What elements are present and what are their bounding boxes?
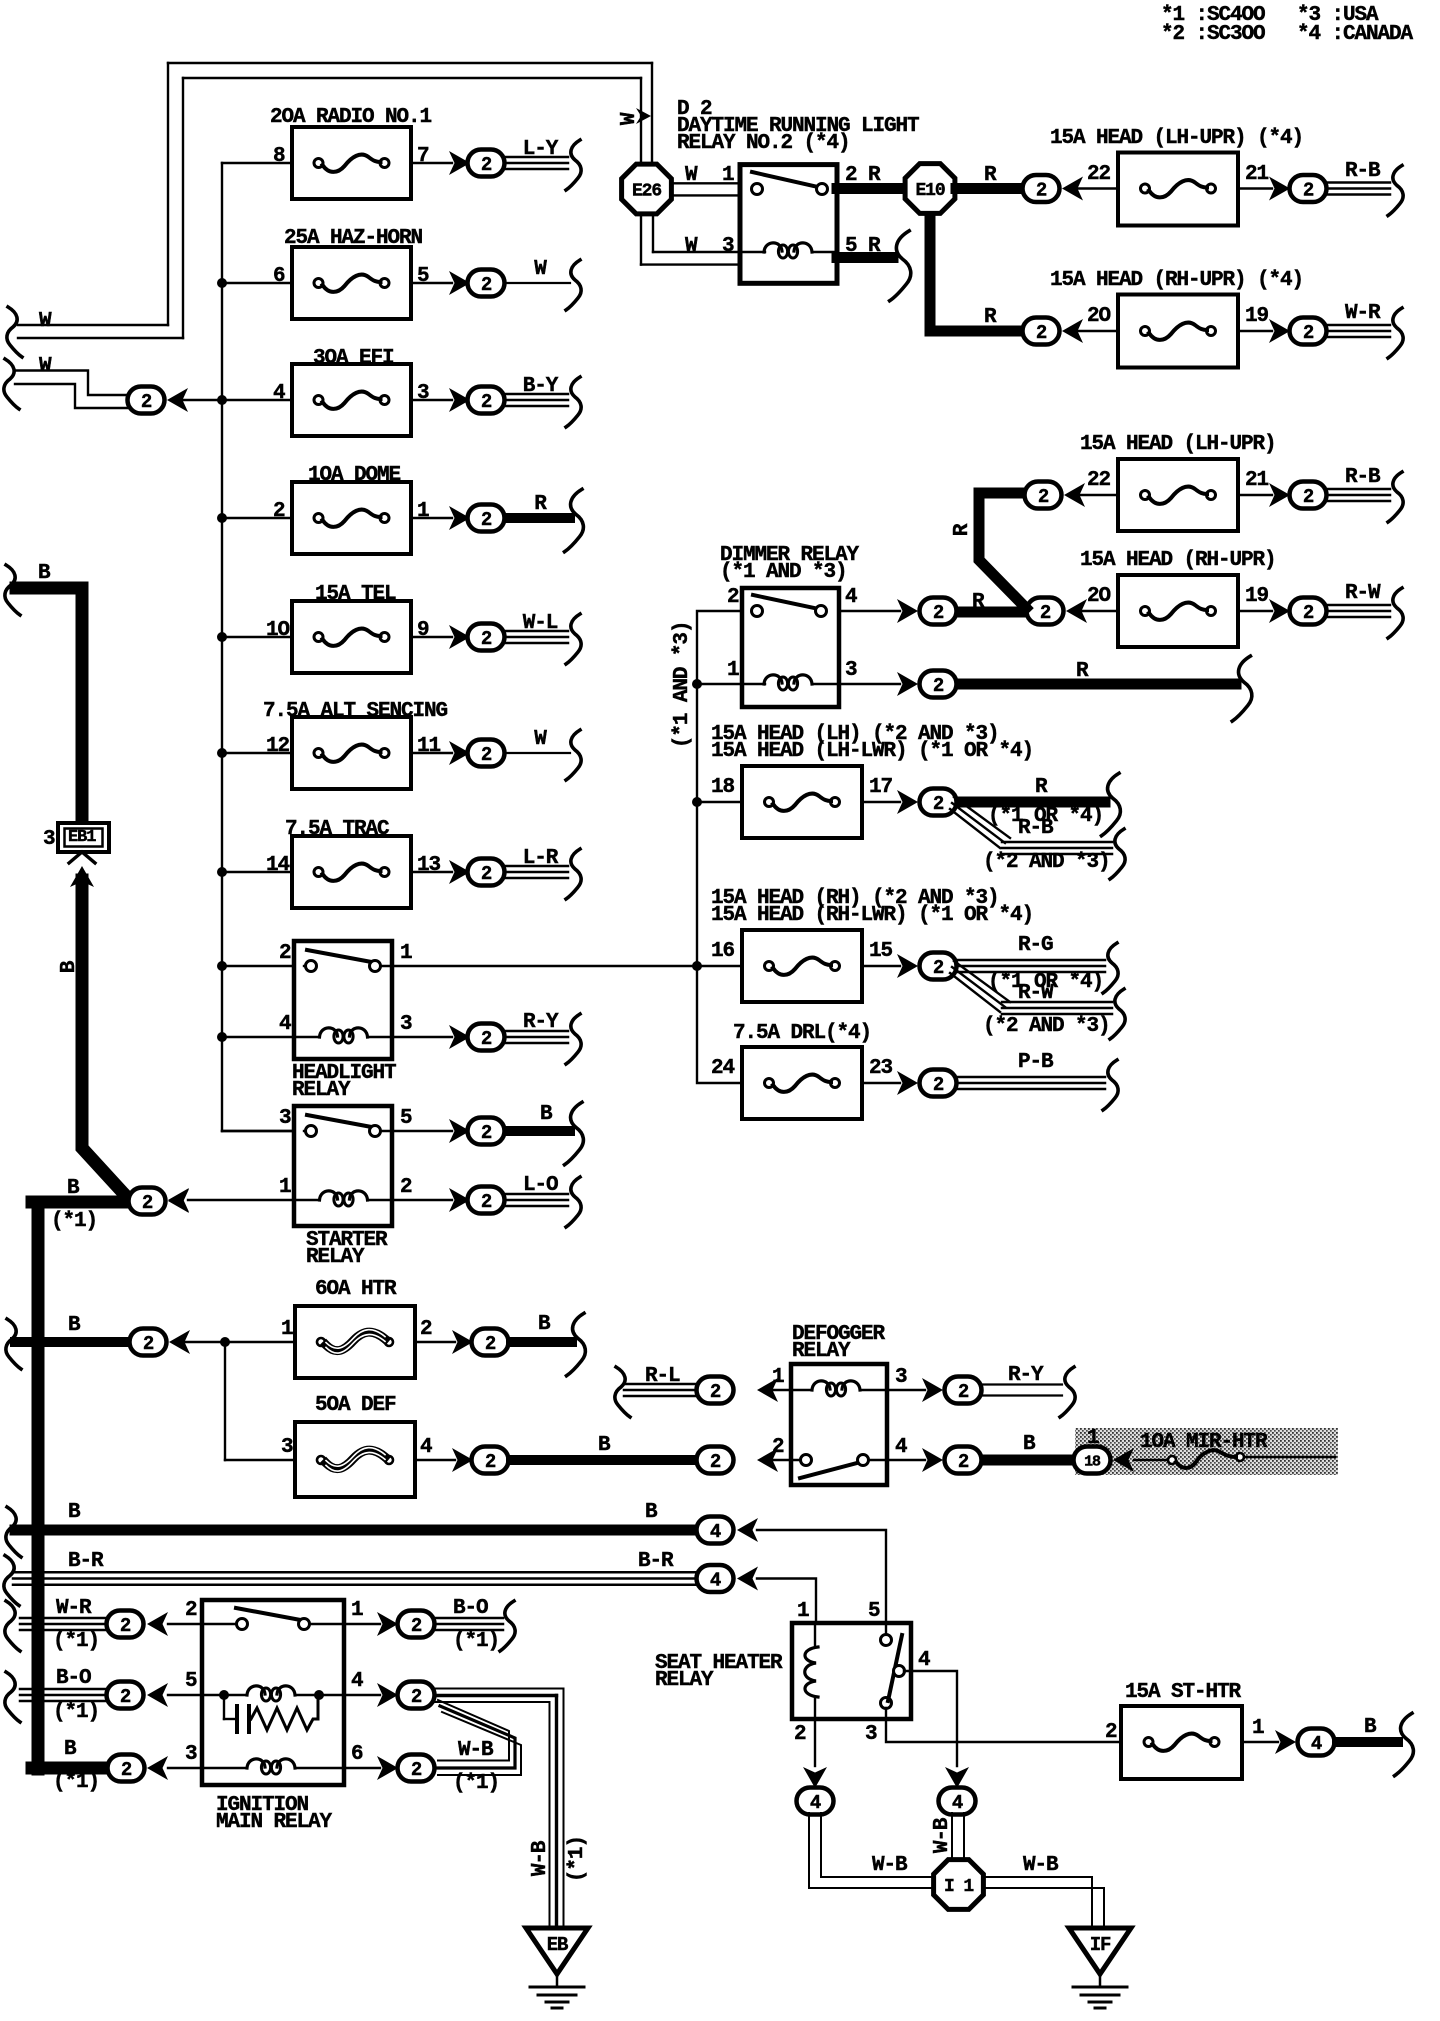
svg-text:B: B <box>540 1103 553 1126</box>
svg-text:14: 14 <box>266 854 290 877</box>
svg-text:W: W <box>39 310 52 333</box>
svg-text:2: 2 <box>933 675 944 697</box>
svg-text:1: 1 <box>722 164 734 187</box>
connector 2 <box>697 1447 734 1474</box>
connector 2 <box>129 1188 166 1215</box>
connector bracket <box>1103 943 1118 993</box>
connector 2 <box>1027 598 1064 625</box>
connector bracket <box>565 1102 584 1165</box>
connector 2 <box>468 859 505 886</box>
svg-text:2: 2 <box>185 1599 197 1622</box>
svg-text:B: B <box>58 960 81 973</box>
svg-text:*4 :CANADA: *4 :CANADA <box>1297 23 1414 46</box>
svg-text:4: 4 <box>810 1792 821 1814</box>
wire pin2 down <box>814 1719 816 1766</box>
connector bracket <box>1232 656 1252 721</box>
connector 2 <box>468 505 505 532</box>
svg-text:15A HEAD (LH-LWR) (*1 OR *4): 15A HEAD (LH-LWR) (*1 OR *4) <box>711 740 1033 763</box>
svg-text:16: 16 <box>711 940 735 963</box>
wire B (*1) <box>32 1762 107 1775</box>
svg-text:4: 4 <box>845 586 857 609</box>
svg-text:(*1 AND *3): (*1 AND *3) <box>720 561 847 584</box>
junction <box>217 632 227 642</box>
svg-text:R-W: R-W <box>1345 582 1381 605</box>
svg-text:2: 2 <box>794 1723 806 1746</box>
svg-text:2: 2 <box>141 391 152 413</box>
svg-text:5: 5 <box>185 1670 197 1693</box>
connector 2 <box>468 624 505 651</box>
wire R up to LH-UPR fuse <box>979 493 1026 608</box>
connector bracket <box>566 1014 581 1064</box>
wire W-B (*1) pin4 to pin6 <box>438 1700 509 1761</box>
wire to starter relay pin1 <box>188 1199 294 1201</box>
arrow <box>449 388 470 412</box>
wire W-B pin4 to I1 <box>951 1813 953 1860</box>
svg-text:B: B <box>68 1501 81 1524</box>
connector 2 <box>130 1329 167 1356</box>
svg-text:W-B: W-B <box>458 1739 494 1762</box>
svg-text:R: R <box>951 523 974 536</box>
svg-text:RELAY: RELAY <box>792 1340 851 1363</box>
wire B to junction 2 (*1) <box>69 852 95 863</box>
arrow <box>449 151 470 175</box>
svg-text:5: 5 <box>417 265 429 288</box>
svg-text:2: 2 <box>1105 1721 1117 1744</box>
connector bracket <box>1103 1060 1118 1110</box>
wire W from fuse box to E26 (double line) <box>168 62 652 64</box>
svg-text:(*1): (*1) <box>453 1772 499 1795</box>
svg-text:1: 1 <box>351 1599 363 1622</box>
connector bracket <box>500 1601 515 1651</box>
junction <box>217 961 227 971</box>
connector 4 <box>697 1565 734 1592</box>
connector 4 <box>1298 1729 1335 1756</box>
svg-text:2: 2 <box>933 1074 944 1096</box>
arrow <box>1113 1448 1134 1472</box>
connector 2 <box>1290 175 1327 202</box>
relay HEADLIGHT RELAY <box>294 941 392 1059</box>
svg-text:5: 5 <box>400 1107 412 1130</box>
svg-text:2: 2 <box>481 509 492 531</box>
connector 2 <box>920 1070 957 1097</box>
svg-text:2: 2 <box>143 1333 154 1355</box>
connector bracket <box>1395 1713 1414 1776</box>
connector 2 <box>468 1118 505 1145</box>
svg-text:1: 1 <box>727 659 739 682</box>
arrow <box>945 1767 969 1788</box>
svg-text:R-B: R-B <box>1018 817 1054 840</box>
wire W-B to ground EB pin4 <box>344 1694 380 1696</box>
svg-text:E10: E10 <box>915 181 944 201</box>
svg-text:21: 21 <box>1245 469 1269 492</box>
connector 2 <box>468 387 505 414</box>
svg-text:2: 2 <box>420 1318 432 1341</box>
wire pin4 <box>904 1671 957 1766</box>
arrow <box>1062 319 1083 343</box>
svg-text:3: 3 <box>279 1107 291 1130</box>
svg-text:W-B: W-B <box>1023 1854 1059 1877</box>
svg-text:6: 6 <box>351 1743 363 1766</box>
wire to seat heater relay pin5 <box>757 1530 886 1623</box>
svg-text:17: 17 <box>869 776 893 799</box>
svg-text:EB1: EB1 <box>68 828 96 847</box>
svg-text:2: 2 <box>400 1176 412 1199</box>
connector I1 <box>934 1860 984 1910</box>
wire W-B I1 to IF ground <box>984 1876 1092 1878</box>
svg-text:4: 4 <box>895 1436 907 1459</box>
wire W to junction 2 (double line) <box>15 371 127 396</box>
svg-text:2: 2 <box>1036 179 1047 201</box>
svg-text:2: 2 <box>958 1451 969 1473</box>
connector 2 <box>920 598 957 625</box>
svg-text:R-W: R-W <box>1018 982 1054 1005</box>
svg-text:B: B <box>1023 1433 1036 1456</box>
fuse 10A MIR-HTR (shaded) <box>1075 1428 1338 1475</box>
svg-text:7: 7 <box>417 145 429 168</box>
svg-text:RELAY: RELAY <box>306 1246 365 1269</box>
connector 2 <box>468 740 505 767</box>
svg-text:21: 21 <box>1245 163 1269 186</box>
svg-text:6OA HTR: 6OA HTR <box>315 1278 397 1301</box>
svg-text:12: 12 <box>266 735 290 758</box>
svg-text:MAIN RELAY: MAIN RELAY <box>216 1811 333 1834</box>
svg-text:R-G: R-G <box>1018 934 1053 957</box>
junction <box>692 797 702 807</box>
svg-text:(*1): (*1) <box>53 1630 99 1653</box>
svg-text:2: 2 <box>710 1381 721 1403</box>
svg-text:1: 1 <box>279 1176 291 1199</box>
connector bracket <box>566 377 581 427</box>
svg-text:B: B <box>1364 1716 1377 1739</box>
svg-text:3: 3 <box>400 1013 412 1036</box>
svg-text:2: 2 <box>1303 602 1314 624</box>
svg-text:P-B: P-B <box>1018 1051 1054 1074</box>
svg-text:R-B: R-B <box>1345 160 1381 183</box>
svg-text:15A ST-HTR: 15A ST-HTR <box>1125 1681 1242 1704</box>
connector bracket <box>566 849 581 899</box>
svg-text:W: W <box>685 164 698 187</box>
svg-text:18: 18 <box>711 776 735 799</box>
connector bracket <box>1388 588 1403 638</box>
svg-text:W: W <box>534 258 547 281</box>
wire main power bus <box>221 163 223 1131</box>
svg-text:2: 2 <box>1036 322 1047 344</box>
svg-text:1: 1 <box>400 942 412 965</box>
svg-text:2: 2 <box>481 744 492 766</box>
connector 2 <box>1290 598 1327 625</box>
arrow <box>449 506 470 530</box>
svg-text:11: 11 <box>417 735 441 758</box>
connector bracket <box>7 307 22 357</box>
svg-text:13: 13 <box>417 854 441 877</box>
svg-text:B-O: B-O <box>453 1597 488 1620</box>
wire R-Y from relay pin3 <box>392 1036 452 1038</box>
connector bracket <box>566 260 581 310</box>
svg-text:4: 4 <box>1311 1733 1322 1755</box>
wire R relay pin2 to E10 <box>837 183 906 194</box>
connector bracket <box>1110 989 1125 1039</box>
svg-text:B-R: B-R <box>68 1550 104 1573</box>
svg-text:19: 19 <box>1245 585 1269 608</box>
svg-text:B: B <box>38 562 51 585</box>
wire R dimmer pin4 <box>839 610 900 612</box>
connector 2 <box>398 1682 435 1709</box>
junction <box>217 395 227 405</box>
svg-text:2: 2 <box>727 586 739 609</box>
svg-text:3: 3 <box>895 1366 907 1389</box>
connector 2 <box>920 953 957 980</box>
wire R-W (*2 AND *3) <box>954 961 1010 1002</box>
wire B from battery via EB1 <box>16 588 82 823</box>
wire B trunk lower <box>32 1202 45 1769</box>
svg-text:I 1: I 1 <box>944 1877 974 1897</box>
arrow <box>737 1518 758 1542</box>
svg-text:B: B <box>645 1501 658 1524</box>
svg-text:2: 2 <box>142 1192 153 1214</box>
connector 2 <box>920 789 957 816</box>
connector 2 <box>1025 482 1062 509</box>
junction <box>692 679 702 689</box>
svg-text:(*1): (*1) <box>53 1701 99 1724</box>
svg-text:3: 3 <box>845 659 857 682</box>
svg-text:2: 2 <box>411 1615 422 1637</box>
arrow <box>147 1612 168 1636</box>
svg-text:(*2 AND *3): (*2 AND *3) <box>983 851 1110 874</box>
svg-text:2: 2 <box>481 628 492 650</box>
connector 2 <box>108 1755 145 1782</box>
connector bracket <box>1388 308 1403 358</box>
svg-text:2: 2 <box>481 1028 492 1050</box>
svg-text:2: 2 <box>485 1333 496 1355</box>
svg-text:B: B <box>598 1434 611 1457</box>
svg-text:RELAY: RELAY <box>292 1079 351 1102</box>
svg-text:1OA MIR-HTR: 1OA MIR-HTR <box>1140 1431 1268 1454</box>
relay IGNITION MAIN RELAY <box>202 1600 344 1785</box>
arrow <box>449 741 470 765</box>
svg-text:W-R: W-R <box>1345 302 1381 325</box>
svg-text:W: W <box>534 728 547 751</box>
arrow <box>803 1767 827 1788</box>
svg-text:15A HEAD (RH-LWR) (*1 OR *4): 15A HEAD (RH-LWR) (*1 OR *4) <box>711 904 1033 927</box>
svg-text:2: 2 <box>1303 322 1314 344</box>
connector bracket <box>566 614 581 664</box>
svg-text:2: 2 <box>120 1615 131 1637</box>
connector E26 <box>672 182 740 184</box>
wire to seat heater relay pin1 <box>757 1579 816 1624</box>
svg-text:7.5A DRL(*4): 7.5A DRL(*4) <box>733 1022 871 1045</box>
svg-text:4: 4 <box>710 1569 721 1591</box>
connector bracket <box>1060 1367 1075 1417</box>
svg-text:3: 3 <box>722 235 734 258</box>
svg-text:2: 2 <box>1040 602 1051 624</box>
connector 2 <box>107 1682 144 1709</box>
svg-text:2: 2 <box>120 1686 131 1708</box>
wire B-O out pin1 <box>344 1623 380 1625</box>
connector bracket <box>1102 773 1121 836</box>
wire R-B (*2 AND *3) <box>954 797 1010 838</box>
arrow <box>169 1330 190 1354</box>
wire W-B pin2 to I1 <box>808 1813 810 1888</box>
arrow <box>1062 177 1083 201</box>
svg-text:2: 2 <box>1303 179 1314 201</box>
connector bracket <box>566 1177 581 1227</box>
svg-text:1: 1 <box>417 500 429 523</box>
connector 2 <box>472 1447 509 1474</box>
connector 2 <box>1290 482 1327 509</box>
svg-text:(*1): (*1) <box>53 1771 99 1794</box>
svg-text:2: 2 <box>485 1451 496 1473</box>
svg-text:4: 4 <box>420 1436 432 1459</box>
svg-text:3: 3 <box>417 382 429 405</box>
svg-text:IF: IF <box>1090 1934 1111 1956</box>
svg-text:15A HEAD (RH-UPR) (*4): 15A HEAD (RH-UPR) (*4) <box>1050 269 1303 292</box>
svg-text:W: W <box>39 355 52 378</box>
connector bracket <box>1388 166 1403 216</box>
svg-text:2: 2 <box>481 863 492 885</box>
svg-text:2: 2 <box>121 1759 132 1781</box>
svg-text:4: 4 <box>273 382 285 405</box>
svg-text:2: 2 <box>481 391 492 413</box>
wire B out <box>415 1341 455 1343</box>
svg-text:24: 24 <box>711 1057 735 1080</box>
svg-text:4: 4 <box>710 1521 721 1543</box>
connector 2 to body <box>128 387 165 414</box>
svg-text:2: 2 <box>1038 486 1049 508</box>
connector 2 <box>945 1377 982 1404</box>
svg-text:2: 2 <box>279 942 291 965</box>
wire relay pin1 to head fuse bus <box>392 965 697 967</box>
svg-text:R: R <box>984 306 997 329</box>
svg-text:RELAY NO.2 (*4): RELAY NO.2 (*4) <box>677 132 850 155</box>
wire B from relay pin5 <box>392 1130 452 1132</box>
svg-text:8: 8 <box>273 145 285 168</box>
arrow <box>1064 483 1085 507</box>
svg-text:B: B <box>538 1313 551 1336</box>
wire R relay pin5 <box>837 252 893 263</box>
svg-text:15A HEAD (LH-UPR) (*4): 15A HEAD (LH-UPR) (*4) <box>1050 127 1303 150</box>
connector bracket <box>567 1313 586 1376</box>
svg-text:B-R: B-R <box>638 1550 674 1573</box>
arrow <box>449 625 470 649</box>
svg-text:5: 5 <box>868 1600 880 1623</box>
svg-text:2: 2 <box>273 500 285 523</box>
svg-text:6: 6 <box>273 265 285 288</box>
arrow <box>737 1567 758 1591</box>
wire R to head fuses <box>956 183 1020 194</box>
arrow <box>147 1756 168 1780</box>
connector 4 <box>939 1788 976 1815</box>
arrow <box>167 388 188 412</box>
connector bracket <box>4 359 19 409</box>
relay STARTER RELAY <box>222 1130 294 1132</box>
svg-text:W-B: W-B <box>529 1840 552 1876</box>
connector 2 <box>1023 175 1060 202</box>
connector bracket <box>566 140 581 190</box>
wire L-O from relay pin2 <box>392 1199 452 1201</box>
wire B long feed <box>6 1507 21 1557</box>
wire pin3 to ST-HTR fuse <box>886 1708 1121 1742</box>
svg-text:2: 2 <box>411 1686 422 1708</box>
svg-text:(*1 AND *3): (*1 AND *3) <box>671 622 694 749</box>
ground EB <box>526 1928 588 1974</box>
svg-text:4: 4 <box>952 1792 963 1814</box>
svg-text:4: 4 <box>351 1670 363 1693</box>
wire B-R long feed <box>4 1556 19 1606</box>
connector bracket <box>5 565 20 615</box>
svg-text:RELAY: RELAY <box>655 1669 714 1692</box>
svg-text:2: 2 <box>481 1122 492 1144</box>
arrow <box>449 860 470 884</box>
svg-text:2: 2 <box>481 1191 492 1213</box>
svg-text:3: 3 <box>281 1436 293 1459</box>
junction <box>217 1032 227 1042</box>
connector 4 <box>797 1788 834 1815</box>
connector bracket <box>565 489 584 552</box>
wire R dimmer pin3 <box>839 683 900 685</box>
svg-text:*2 :SC3OO: *2 :SC3OO <box>1161 23 1265 46</box>
wire B from pin4 to 10A MIR-HTR <box>887 1459 925 1461</box>
svg-text:(*1): (*1) <box>566 1836 589 1882</box>
svg-text:18: 18 <box>1084 1453 1101 1470</box>
svg-text:1: 1 <box>281 1318 293 1341</box>
connector 2 <box>398 1611 435 1638</box>
svg-text:3: 3 <box>865 1723 877 1746</box>
connector 18 <box>1074 1447 1111 1474</box>
capacitor and resistor <box>223 1695 225 1719</box>
svg-text:B: B <box>64 1738 77 1761</box>
wire B-O (*1) <box>5 1672 20 1722</box>
connector 2 <box>468 150 505 177</box>
svg-text:1: 1 <box>797 1600 809 1623</box>
svg-text:1: 1 <box>1252 1717 1264 1740</box>
connector EB1 <box>58 823 109 852</box>
svg-text:W-B: W-B <box>872 1854 908 1877</box>
arrow <box>757 1448 778 1472</box>
svg-text:3: 3 <box>43 828 55 851</box>
svg-text:2: 2 <box>933 602 944 624</box>
arrow <box>757 1378 778 1402</box>
svg-text:(*1): (*1) <box>51 1210 97 1233</box>
svg-text:4: 4 <box>279 1013 291 1036</box>
connector 2 <box>1290 318 1327 345</box>
svg-text:(*2 AND *3): (*2 AND *3) <box>983 1015 1110 1038</box>
svg-text:2: 2 <box>1303 486 1314 508</box>
svg-text:4: 4 <box>918 1649 930 1672</box>
svg-text:R: R <box>1035 776 1048 799</box>
svg-text:22: 22 <box>1087 163 1111 186</box>
connector 2 <box>468 270 505 297</box>
svg-text:2: 2 <box>481 154 492 176</box>
svg-text:9: 9 <box>417 619 429 642</box>
arrow <box>168 1189 189 1213</box>
svg-text:B: B <box>68 1314 81 1337</box>
svg-text:(*1): (*1) <box>453 1630 499 1653</box>
arrow <box>449 271 470 295</box>
wire B to defogger relay <box>415 1459 455 1461</box>
arrow <box>168 1188 189 1212</box>
connector 2 <box>107 1611 144 1638</box>
svg-text:2O: 2O <box>1087 305 1111 328</box>
connector E10 <box>925 214 936 331</box>
ground IF <box>1069 1928 1131 1974</box>
svg-text:R: R <box>534 493 547 516</box>
svg-text:R: R <box>984 164 997 187</box>
svg-text:W-B: W-B <box>931 1817 954 1853</box>
svg-text:1O: 1O <box>266 619 290 642</box>
junction <box>217 748 227 758</box>
svg-text:22: 22 <box>1087 469 1111 492</box>
svg-text:15A HEAD (LH-UPR): 15A HEAD (LH-UPR) <box>1080 433 1276 456</box>
